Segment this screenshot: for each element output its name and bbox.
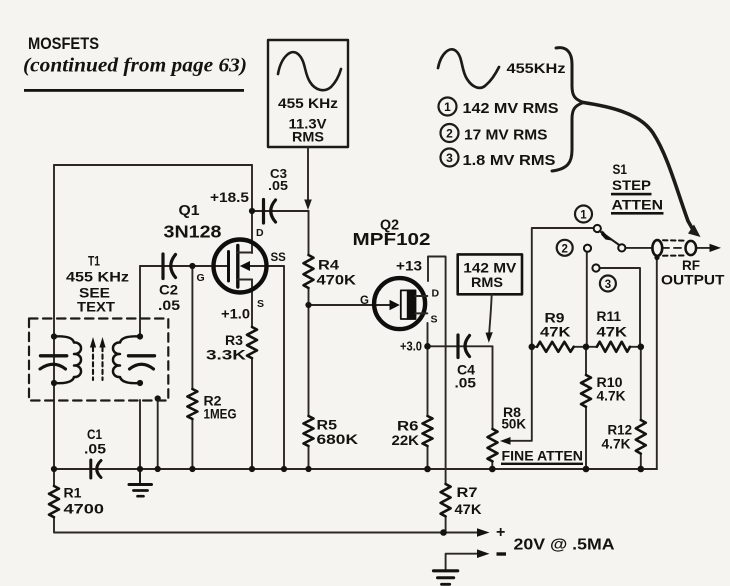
svg-text:680K: 680K	[317, 432, 359, 447]
svg-text:T1: T1	[88, 254, 100, 269]
signal source box 455 KHz 11.3V RMS	[268, 40, 348, 147]
brace	[552, 48, 584, 171]
svg-text:.05: .05	[84, 442, 107, 457]
coax right ellipse	[686, 241, 697, 255]
pointer from box to C4 output	[489, 294, 492, 333]
switch position 1 circled number	[575, 206, 592, 223]
wire R1 top lead	[53, 469, 55, 486]
horizontal rule	[24, 89, 244, 92]
wire left vertical line	[53, 165, 55, 469]
svg-text:3N128: 3N128	[164, 222, 222, 242]
resistor R11 47K	[597, 342, 630, 352]
svg-text:+1.0: +1.0	[221, 306, 250, 322]
Q2 channel block	[401, 290, 416, 319]
ground at power supply minus	[434, 571, 458, 585]
svg-text:MPF102: MPF102	[353, 229, 431, 249]
switch contact 3	[592, 264, 599, 271]
resistor R4 470K	[304, 255, 314, 288]
T1 core dashed lines with arrows	[93, 347, 103, 380]
switch wiper blade	[600, 231, 619, 245]
sine wave 455KHz (top right)	[438, 49, 499, 87]
wire R7 bottom to B+ node	[445, 517, 447, 533]
node 1 legend: 142 MV RMS	[439, 98, 457, 116]
wire C4 run from +3.0 node	[428, 345, 493, 347]
svg-text:1: 1	[580, 210, 587, 222]
coax dashed shield outline	[663, 239, 686, 241]
svg-text:2: 2	[446, 127, 453, 141]
svg-text:20V @ .5MA: 20V @ .5MA	[514, 537, 615, 554]
node +3.0 Q2 source	[424, 343, 431, 350]
svg-text:455KHz: 455KHz	[507, 60, 566, 76]
capacitor C3 .05 flat plate	[262, 200, 265, 224]
wire R2 branch	[191, 266, 193, 389]
resistor R3 3.3K	[247, 327, 257, 358]
node rail / R3	[249, 466, 255, 472]
capacitor C1 .05 flat plate	[89, 460, 92, 478]
svg-text:R6: R6	[397, 419, 419, 434]
node Q1 drain / C3	[249, 208, 255, 214]
wire switch position 3 over and down to R11/R12 node	[600, 268, 640, 347]
node T1 secondary top	[137, 333, 143, 339]
wire Q2 drain up-over-down	[428, 257, 446, 485]
svg-text:R12: R12	[608, 423, 633, 438]
switch position 2 circled number	[557, 240, 573, 256]
svg-text:R9: R9	[545, 311, 565, 326]
svg-text:.05: .05	[455, 376, 477, 391]
svg-text:R7: R7	[457, 485, 478, 500]
wire R10 branch	[585, 347, 587, 469]
wire R5 bottom to ground rail	[308, 446, 310, 469]
wire T1 right branch below box	[139, 400, 141, 469]
wire from source box down to C3/R4 junction with arrowhead	[307, 147, 309, 200]
T1 secondary tuning capacitor	[129, 356, 155, 369]
capacitor C2 .05 flat plate	[161, 254, 164, 279]
svg-text:R5: R5	[317, 418, 338, 433]
svg-text:1.8 MV RMS: 1.8 MV RMS	[463, 153, 556, 169]
svg-text:3: 3	[446, 151, 453, 165]
wire C3 run from drain node to R4	[252, 210, 309, 212]
wire Q2 gate	[309, 304, 391, 306]
wire Q2 source to +3.0 node	[427, 323, 429, 346]
RF output arrow	[710, 244, 722, 252]
svg-text:SS: SS	[271, 252, 287, 264]
svg-text:47K: 47K	[540, 325, 571, 340]
switch contact 2	[584, 245, 591, 252]
svg-text:RMS: RMS	[292, 129, 324, 145]
node T1 primary bottom	[51, 380, 57, 386]
svg-text:(continued from page 63): (continued from page 63)	[23, 55, 247, 77]
resistor R5 680K	[304, 416, 314, 446]
svg-text:470K: 470K	[317, 273, 357, 288]
svg-text:C2: C2	[159, 283, 178, 298]
svg-text:OUTPUT: OUTPUT	[661, 272, 725, 288]
wire R12 branch	[640, 347, 642, 469]
svg-text:S: S	[257, 298, 264, 310]
pointer curve from brace to RF output	[584, 103, 693, 229]
switch contact 1	[594, 225, 601, 232]
svg-text:+: +	[496, 524, 505, 541]
node rail / R12	[638, 466, 645, 473]
wire SS to ground rail	[283, 266, 285, 469]
Q1 substrate arrow	[240, 261, 250, 271]
node rail / R8	[489, 466, 496, 473]
resistor R2 1MEG	[187, 389, 197, 419]
node rail / R6	[424, 466, 431, 473]
svg-text:+13: +13	[396, 258, 422, 274]
node rail / R2	[189, 466, 195, 472]
wire R2 bottom to rail	[191, 419, 193, 469]
Q2 circle	[374, 278, 425, 329]
minus terminal arrow	[477, 549, 490, 558]
svg-text:FINE ATTEN: FINE ATTEN	[502, 448, 584, 464]
wire R3 bottom to rail	[251, 358, 253, 469]
node rail / T1 ground	[137, 466, 143, 472]
svg-text:4700: 4700	[64, 502, 105, 517]
svg-text:.05: .05	[158, 298, 181, 313]
wire plus terminal	[444, 532, 479, 534]
T1 secondary winding	[113, 336, 140, 383]
capacitor C3 curved plate	[271, 200, 276, 222]
node 2 legend: 17 MV RMS	[441, 124, 459, 142]
wire R8 wiper up to R9 input node	[509, 347, 532, 441]
node Q1 gate / R2	[189, 263, 195, 269]
wire switch position 1 to R9 input	[532, 228, 594, 347]
resistor R6 22K	[423, 416, 433, 446]
wire R9 leads	[532, 346, 586, 348]
svg-text:S: S	[431, 314, 438, 326]
svg-text:MOSFETS: MOSFETS	[28, 35, 99, 53]
svg-text:50K: 50K	[502, 417, 527, 432]
node R9 input	[529, 344, 536, 351]
wire dashed segment inside coax	[662, 247, 686, 249]
wire C4 out down to R8 top	[492, 346, 494, 429]
plus terminal arrow	[477, 528, 490, 537]
svg-text:R4: R4	[318, 258, 340, 273]
svg-text:455 KHz: 455 KHz	[66, 270, 129, 285]
node rail / R10	[583, 466, 590, 473]
svg-text:2: 2	[561, 243, 567, 255]
wire coax shield to ground rail	[656, 256, 658, 469]
resistor R7 47K	[441, 484, 451, 516]
svg-text:3: 3	[605, 279, 611, 291]
wire switch position 2 down to R9/R11 node	[586, 252, 588, 347]
svg-text:.05: .05	[268, 178, 288, 193]
svg-text:+18.5: +18.5	[210, 189, 249, 205]
node B+ / R7	[440, 529, 447, 536]
svg-text:1: 1	[444, 100, 451, 114]
wire top rail from left line to Q1 drain	[54, 164, 252, 166]
node rail / R5	[305, 466, 311, 472]
svg-text:47K: 47K	[455, 502, 482, 517]
Q2 drain stub	[416, 295, 428, 297]
svg-text:ATTEN: ATTEN	[612, 197, 664, 213]
svg-text:S1: S1	[613, 161, 628, 177]
wire switch common to RF output	[625, 247, 711, 249]
svg-text:Q1: Q1	[179, 203, 200, 219]
switch position 3 circled number	[600, 276, 616, 292]
wire gate node down to R5	[308, 305, 310, 416]
T1 primary tuning capacitor	[40, 356, 67, 369]
svg-text:17 MV RMS: 17 MV RMS	[464, 128, 548, 144]
T1 shield dashed box	[29, 319, 168, 401]
wire T1 shield tap to rail	[157, 399, 159, 470]
svg-text:D: D	[432, 288, 440, 300]
wire R4/R5 vertical	[308, 211, 310, 255]
T1 primary winding	[54, 336, 81, 383]
wire T1 secondary top	[139, 266, 141, 337]
wire Q1 source down through R3	[251, 280, 253, 328]
svg-text:RMS: RMS	[471, 274, 503, 290]
node R4 / Q2 gate	[305, 302, 311, 308]
wire C2 run (T1 secondary to Q1 gate)	[140, 265, 229, 267]
svg-text:1MEG: 1MEG	[204, 407, 237, 422]
Q1 circle	[214, 240, 267, 293]
coax shield junction	[654, 255, 659, 260]
Q1 source stub	[238, 279, 252, 281]
wire R6 bottom to rail	[427, 446, 429, 469]
node rail / shield tap	[155, 466, 161, 472]
node R11/R12 junction	[638, 344, 645, 351]
node T1 shield	[155, 395, 161, 401]
ground rail	[54, 468, 657, 470]
svg-text:G: G	[360, 295, 369, 307]
coax left ellipse	[652, 240, 662, 256]
svg-text:3.3K: 3.3K	[206, 348, 246, 363]
svg-text:+3.0: +3.0	[400, 339, 422, 354]
svg-text:4.7K: 4.7K	[597, 389, 626, 404]
wire Q1 drain vertical	[251, 165, 253, 253]
resistor R10 4.7K	[581, 375, 591, 407]
svg-text:R11: R11	[597, 309, 622, 324]
capacitor C2 curved plate	[171, 255, 176, 278]
capacitor C1 curved plate	[97, 461, 101, 478]
svg-text:TEXT: TEXT	[77, 300, 116, 315]
wire R11 leads	[586, 346, 641, 348]
Q2 gate arrow	[390, 300, 400, 310]
capacitor C4 curved plate	[465, 336, 470, 357]
svg-text:SEE: SEE	[79, 286, 110, 301]
wire R6 branch	[427, 346, 429, 416]
node rail / SS	[281, 466, 287, 472]
Q1 channel bar	[236, 246, 239, 288]
svg-text:R1: R1	[64, 486, 83, 501]
node rail / left line	[51, 466, 57, 472]
svg-text:455 KHz: 455 KHz	[278, 95, 338, 111]
Q2 source stub	[416, 312, 428, 314]
wire R4 bottom to gate node	[308, 288, 310, 305]
svg-text:G: G	[197, 272, 205, 284]
resistor R12 4.7K	[636, 420, 646, 454]
svg-text:D: D	[256, 227, 264, 239]
node T1 secondary bottom	[137, 380, 143, 386]
wire Q1 substrate SS	[249, 265, 284, 267]
resistor R8 50K potentiometer body	[488, 429, 498, 461]
node T1 primary top	[51, 333, 57, 339]
ground below rail near T1	[129, 469, 152, 496]
resistor R9 47K	[537, 342, 574, 352]
svg-text:142 MV RMS: 142 MV RMS	[463, 101, 559, 117]
svg-text:4.7K: 4.7K	[602, 437, 631, 452]
wire R8 bottom to rail	[491, 461, 493, 469]
wire R1 bottom to B+ rail	[54, 518, 444, 533]
Q1 gate bar	[227, 252, 230, 282]
svg-text:C1: C1	[87, 427, 102, 442]
svg-text:STEP: STEP	[612, 177, 651, 193]
switch common contact	[618, 244, 625, 251]
svg-text:R3: R3	[225, 333, 244, 348]
capacitor C4 .05 flat plate	[456, 335, 459, 358]
node 3 legend: 1.8 MV RMS	[441, 149, 459, 167]
svg-text:47K: 47K	[597, 325, 628, 340]
resistor R1 4700	[49, 486, 59, 517]
Q1 drain stub	[238, 252, 252, 254]
node R9/R11/R10 junction	[583, 344, 590, 351]
wire minus terminal from ground	[446, 554, 478, 570]
svg-text:22K: 22K	[392, 433, 420, 448]
